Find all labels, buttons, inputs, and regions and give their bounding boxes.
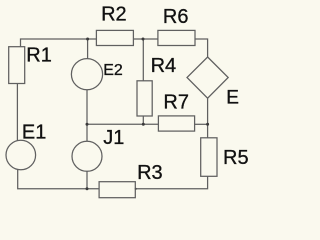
resistor R7 bbox=[158, 116, 194, 131]
svg-text:E1: E1 bbox=[22, 122, 46, 144]
svg-text:R3: R3 bbox=[137, 162, 163, 184]
node dot bottom J1 bbox=[86, 187, 89, 190]
resistor R6 bbox=[158, 30, 195, 45]
node dot top E2 bbox=[86, 38, 89, 41]
svg-text:R4: R4 bbox=[151, 55, 177, 77]
source E (diamond) bbox=[187, 57, 228, 98]
node dot R3 right bbox=[135, 188, 137, 190]
wire J1 top stub bbox=[86, 124, 88, 141]
source J1 bbox=[72, 141, 102, 171]
svg-text:R6: R6 bbox=[163, 6, 189, 28]
svg-text:J1: J1 bbox=[103, 127, 124, 149]
svg-text:E2: E2 bbox=[103, 62, 123, 79]
wire R4 bottom stub bbox=[142, 116, 144, 124]
wire R1 top to R2 left (top rail) bbox=[21, 39, 97, 47]
wire R3 right to R5 bottom bbox=[135, 176, 207, 189]
resistor R2 bbox=[96, 30, 133, 45]
svg-text:R1: R1 bbox=[26, 45, 52, 67]
wire center rail bbox=[87, 123, 158, 125]
node dot top R2/R6 junction bbox=[142, 38, 145, 41]
source E1 bbox=[6, 140, 36, 170]
svg-text:R5: R5 bbox=[223, 147, 249, 169]
resistor R4 bbox=[137, 81, 152, 116]
wire E1 bottom to R3 left (bottom rail) bbox=[18, 169, 99, 189]
wire R6 right to diamond top bbox=[195, 39, 208, 57]
node dot center right bbox=[206, 123, 209, 126]
svg-text:E: E bbox=[226, 88, 239, 109]
source E2 bbox=[71, 59, 102, 90]
wire R2 to R6 bbox=[133, 38, 158, 40]
wire E2 top stub bbox=[87, 39, 89, 59]
resistor R3 bbox=[99, 182, 135, 198]
resistor R1 bbox=[9, 47, 25, 84]
wire R7 right to junction bbox=[195, 123, 208, 125]
wire diamond bottom to R5 top bbox=[207, 98, 209, 138]
svg-text:R2: R2 bbox=[101, 4, 127, 26]
wire R1 bottom to E1 top bbox=[16, 84, 18, 142]
resistor R5 bbox=[201, 138, 217, 177]
wire J1 bottom stub bbox=[86, 171, 88, 189]
svg-text:R7: R7 bbox=[163, 91, 189, 113]
node dot center left bbox=[86, 123, 89, 126]
wire E2 bottom to center rail bbox=[86, 90, 88, 125]
node dot center R4 bbox=[142, 123, 145, 126]
wire R4 top stub bbox=[142, 39, 144, 81]
